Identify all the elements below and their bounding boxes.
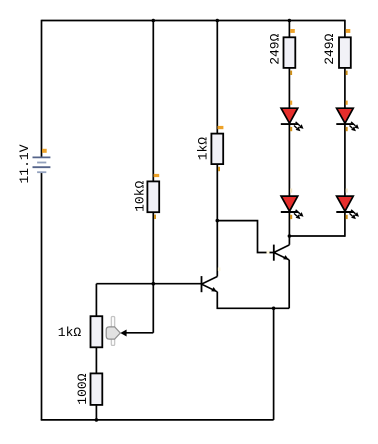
resistor R4 249 pin terminal bottom (346, 71, 348, 75)
resistor R1 10k pin terminal bottom (154, 215, 156, 219)
LED4 (336, 196, 359, 219)
svg-text:10kΩ: 10kΩ (133, 181, 148, 212)
LED2 (281, 196, 304, 219)
LED1 cathode pin terminal (290, 127, 292, 131)
wire node down to Q1 collector (216, 221, 218, 277)
wire top rail to R3 249 (288, 21, 290, 38)
wire Q2 collector stub (288, 236, 290, 245)
resistor R2 1k body (211, 134, 223, 165)
wire left vertical to battery + (41, 20, 43, 158)
potentiometer VR1 wiper arrow (120, 330, 126, 337)
svg-text:1kΩ: 1kΩ (58, 325, 82, 340)
wire R1 10k to base node (152, 212, 154, 284)
wire pot bottom to R5 100 top (95, 347, 97, 373)
wire top rail corner to R4 249 (344, 20, 346, 38)
wire top rail (42, 20, 345, 22)
LED4 cathode pin terminal (346, 215, 348, 219)
resistor R4 249 body (339, 37, 351, 68)
wire node to Q2 base (217, 221, 273, 253)
resistor R2 1k pin terminal bottom (218, 167, 220, 171)
wire base rail to Q1 base (96, 283, 201, 285)
resistor R3 249 pin terminal top (290, 29, 295, 33)
junction node emitters (272, 307, 276, 311)
wire battery - down to bottom rail (41, 172, 43, 420)
wire bottom rail (41, 419, 274, 421)
svg-text:249Ω: 249Ω (322, 33, 337, 64)
junction node top rail R1 (152, 19, 156, 23)
LED2 cathode pin terminal (290, 215, 292, 219)
LED3 cathode pin terminal (346, 127, 348, 131)
LED3 (336, 108, 359, 131)
wire LED3 to LED4 (344, 124, 346, 196)
wire top rail to R1 10k (152, 21, 154, 182)
svg-text:100Ω: 100Ω (75, 373, 90, 404)
junction node base rail (152, 282, 156, 286)
battery BT1 (33, 157, 51, 172)
wire base node down to pot top (95, 284, 97, 317)
resistor R1 10k pin terminal top (154, 174, 160, 177)
junction node top rail R2 (216, 19, 220, 23)
transistor Q1 collector pin terminal (218, 268, 221, 272)
junction node bottom rail R5 (95, 418, 99, 422)
battery BT1 terminal pin (42, 149, 47, 153)
junction node top rail R3 (288, 19, 292, 23)
resistor R3 249 body (284, 37, 296, 68)
resistor R4 249 pin terminal top (346, 29, 351, 33)
resistor R5 100 body (91, 373, 103, 405)
wire R5 100 bottom to bottom rail (95, 405, 97, 420)
wire wiper horizontal (126, 332, 153, 334)
transistor Q2 (274, 245, 290, 261)
wire Q2 emitter down (288, 260, 290, 308)
LED3 anode pin terminal (346, 101, 348, 105)
svg-text:249Ω: 249Ω (267, 33, 282, 64)
resistor R2 1k pin terminal top (218, 126, 224, 129)
svg-text:1kΩ: 1kΩ (196, 137, 211, 161)
transistor Q1 (202, 276, 218, 292)
wire top rail to R2 1k (216, 21, 218, 134)
LED1 anode pin terminal (290, 101, 292, 105)
potentiometer VR1 wiper track (111, 317, 114, 346)
potentiometer VR1 wiper knob (106, 327, 120, 339)
resistor R3 249 pin terminal bottom (290, 71, 292, 75)
wire emitter node drop to bottom rail (273, 308, 275, 420)
wire R2 1k bottom to node (216, 164, 218, 221)
wire Q1 emitter down and right (217, 292, 289, 309)
wire R3 to LED1 (288, 68, 290, 108)
potentiometer VR1 body (91, 316, 103, 347)
LED4 anode pin terminal (346, 189, 348, 193)
LED2 anode pin terminal (290, 189, 292, 193)
svg-text:11.1V: 11.1V (17, 144, 32, 183)
wire mid rail collector node (289, 235, 345, 237)
LED1 (281, 108, 304, 131)
junction node R2/Q1 collector/Q2 base (216, 219, 220, 223)
transistor Q2 base pin terminal (267, 251, 270, 254)
wire LED4 to mid rail (344, 212, 346, 237)
wire LED1 to LED2 (288, 124, 290, 196)
wire base node down to wiper (152, 284, 154, 333)
junction node LED cathodes / Q2 collector (288, 234, 292, 238)
resistor R1 10k body (147, 181, 159, 212)
wire R4 to LED3 (344, 68, 346, 108)
wire LED2 to collector node (288, 212, 290, 236)
